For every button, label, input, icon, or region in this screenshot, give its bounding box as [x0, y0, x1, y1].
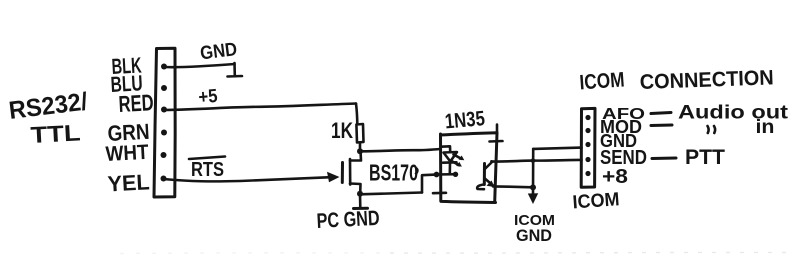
- J1 pin 5 dot: [161, 152, 167, 158]
- svg-text:in: in: [756, 116, 775, 138]
- J1 pin 6 dot: [161, 176, 167, 182]
- icom gnd arrowhead: [528, 193, 538, 204]
- PC ground bar: [354, 207, 368, 210]
- wire +5 corner down to resistor: [356, 104, 357, 125]
- dash MOD: [651, 124, 672, 128]
- node cathode end blob: [453, 172, 458, 177]
- node crossing: [531, 158, 536, 163]
- label RS232/TTL: [7, 88, 89, 148]
- svg-text:BS170: BS170: [369, 160, 418, 186]
- node LED cathode junction: [434, 172, 440, 178]
- svg-text:1N35: 1N35: [444, 107, 486, 133]
- U1 top pin stub: [496, 125, 499, 134]
- ground termination: [228, 63, 243, 77]
- svg-text:PTT: PTT: [685, 145, 725, 169]
- RTS overline: [189, 157, 225, 160]
- wire drain to optocoupler LED: [360, 149, 440, 151]
- connector J2 (ICOM): [581, 108, 595, 187]
- svg-text:PC GND: PC GND: [316, 207, 380, 233]
- Q1 channel bar: [349, 159, 352, 185]
- svg-text:CONNECTION: CONNECTION: [639, 66, 774, 94]
- wire corner up: [422, 175, 436, 193]
- optocoupler U1 1N35 box: [441, 133, 498, 203]
- resistor bottom lead: [359, 143, 362, 152]
- phototransistor collector lead: [485, 161, 492, 169]
- svg-text:GND: GND: [516, 226, 552, 245]
- svg-text:WHT: WHT: [105, 141, 149, 166]
- dash AFO: [651, 113, 671, 114]
- phototransistor lower hook: [477, 185, 484, 190]
- J2 pin 2 dot (MOD): [585, 128, 590, 133]
- svg-text:RED: RED: [118, 89, 154, 117]
- PC ground lead: [359, 194, 362, 208]
- node drain junction: [357, 148, 363, 154]
- svg-text:TTL: TTL: [30, 119, 81, 148]
- J1 pin 1 dot: [161, 64, 167, 70]
- photon arrow 1: [454, 155, 462, 159]
- connector J1 (RS232/TTL header): [154, 48, 175, 197]
- J2 pin 4 dot (SEND): [585, 157, 590, 162]
- svg-text:ICOM: ICOM: [579, 68, 625, 94]
- gate arrowhead: [327, 172, 340, 182]
- LED D1 cathode bar: [443, 161, 457, 164]
- photon arrow 2: [452, 161, 460, 165]
- node emitter junction: [530, 184, 536, 190]
- node source junction: [357, 191, 363, 197]
- svg-text:GND: GND: [199, 39, 238, 64]
- svg-text:+5: +5: [198, 86, 219, 109]
- stray pen tick: [416, 169, 417, 174]
- J2 pin 1 dot (AFO): [585, 115, 590, 120]
- svg-text:YEL: YEL: [107, 169, 150, 196]
- emitter arrowhead: [487, 181, 495, 188]
- ditto mark: [708, 126, 709, 133]
- phototransistor emitter lead: [485, 179, 493, 186]
- wire SEND: collector to right connector: [492, 160, 582, 162]
- wire GND pin from vertical: [533, 148, 581, 149]
- transistor Q1 BS170 gate bar: [341, 163, 344, 183]
- U1 right pin tick: [490, 140, 503, 143]
- resistor R1 1K body: [356, 124, 363, 143]
- Q1 source lead: [350, 184, 361, 194]
- svg-text:1K: 1K: [331, 118, 353, 143]
- LED D1 anode hook: [441, 146, 450, 152]
- Q1 drain lead: [350, 151, 361, 161]
- wire +5 from pin3: [164, 104, 356, 111]
- wire emitter to icom-gnd vertical: [493, 185, 533, 189]
- wire source to LED cathode: [360, 193, 422, 195]
- wire into box: [437, 173, 457, 176]
- J1 pin 4 dot: [161, 130, 167, 136]
- U1 left pin tick: [433, 192, 446, 195]
- phototransistor base bar: [483, 164, 486, 185]
- faint scan artifact line: [120, 252, 390, 255]
- LED D1 triangle: [444, 152, 458, 162]
- svg-text:RTS: RTS: [191, 159, 224, 181]
- dash SEND: [652, 157, 676, 161]
- J2 pin 5 dot (+8): [585, 171, 590, 176]
- LED D1 cathode lead: [448, 163, 451, 174]
- wire icom gnd vertical: [532, 149, 535, 196]
- wire GND from pin1: [164, 64, 235, 67]
- J2 pin 3 dot (GND): [585, 142, 590, 147]
- svg-text:+8: +8: [602, 166, 628, 188]
- J1 pin 3 dot: [161, 107, 167, 113]
- wire RTS from pin6 to gate: [164, 177, 329, 181]
- svg-text:ICOM: ICOM: [572, 189, 620, 213]
- J1 pin 2 dot: [161, 85, 167, 91]
